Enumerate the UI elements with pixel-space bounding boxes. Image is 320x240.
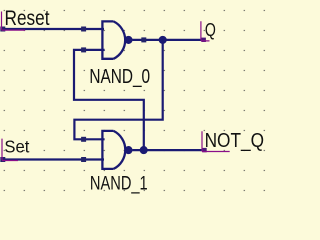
wire Set bbox=[1, 158, 104, 160]
wire-end square on Q wire at output pin end bbox=[141, 37, 146, 42]
wire feedback Q to NAND_1 input A bbox=[74, 40, 162, 139]
junction on NOT_Q wire bbox=[140, 146, 148, 154]
wire Reset bbox=[1, 28, 104, 30]
wire-end square Reset start bbox=[0, 27, 5, 32]
label anchor Reset bbox=[2, 12, 26, 31]
wire-end square Reset wire at NAND_0 input A pin end bbox=[81, 27, 86, 32]
wire-end square NAND_1 input A pin end bbox=[81, 137, 86, 142]
wire-end square Set start bbox=[0, 157, 5, 162]
label anchor Q bbox=[201, 21, 210, 41]
wire-end square NOT_Q end bbox=[202, 148, 206, 152]
svg-text:Reset: Reset bbox=[5, 7, 50, 30]
junction on Q wire bbox=[159, 36, 167, 44]
svg-text:NAND_0: NAND_0 bbox=[89, 66, 150, 88]
wire NOT_Q output bbox=[132, 149, 205, 151]
bubble NAND_0 output bbox=[124, 36, 132, 44]
wire-end square NAND_0 input B pin end bbox=[81, 47, 86, 52]
pin NAND_1 input A bbox=[84, 138, 105, 140]
op NAND_1 gate body bbox=[102, 131, 125, 169]
svg-text:Q: Q bbox=[205, 20, 216, 40]
label anchor NOT_Q bbox=[202, 131, 230, 151]
svg-text:Set: Set bbox=[4, 136, 29, 156]
wire-end square Set wire at NAND_1 input B pin end bbox=[81, 157, 86, 162]
pin NAND_0 input B bbox=[84, 49, 105, 51]
wire Q output bbox=[132, 39, 204, 41]
svg-text:NAND_1: NAND_1 bbox=[90, 173, 148, 194]
wire feedback NOT_Q to NAND_0 input B bbox=[74, 50, 144, 150]
label anchor Set bbox=[2, 139, 18, 161]
wire-end square Q end bbox=[202, 38, 206, 42]
op NAND_0 gate body bbox=[102, 21, 125, 58]
bubble NAND_1 output bbox=[124, 146, 132, 154]
svg-text:NOT_Q: NOT_Q bbox=[205, 130, 264, 152]
grid dots bbox=[0, 0, 269, 203]
